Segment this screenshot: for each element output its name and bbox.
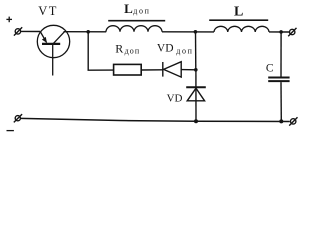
svg-text:доп: доп bbox=[125, 47, 141, 56]
wire: Ldop to L bbox=[162, 31, 214, 33]
diode VDdop (cathode left) bbox=[163, 62, 181, 77]
terminal T2 (top right output) bbox=[288, 28, 296, 36]
svg-text:C: C bbox=[266, 62, 274, 74]
junction node D bbox=[194, 68, 198, 72]
base bar bbox=[42, 43, 60, 45]
resistor Rdop bbox=[114, 64, 142, 75]
junction node C top bbox=[279, 30, 283, 34]
inductor L bbox=[209, 20, 269, 32]
svg-text:VD: VD bbox=[167, 92, 183, 104]
minus sign bbox=[7, 130, 14, 132]
wire: branch left segment bbox=[88, 69, 114, 71]
wire: node A down to Rdop branch bbox=[87, 32, 89, 70]
svg-text:R: R bbox=[115, 41, 123, 55]
junction node A bbox=[86, 30, 90, 34]
core bar Ldop bbox=[108, 20, 165, 22]
svg-text:VT: VT bbox=[38, 4, 58, 18]
wire: collector to Ldop bbox=[64, 31, 107, 33]
bottom rail wire bbox=[21, 118, 290, 121]
svg-text:L: L bbox=[234, 5, 243, 20]
wire: + terminal to transistor emitter bbox=[21, 30, 41, 32]
diode VD (cathode up) bbox=[186, 70, 206, 121]
junction node F bottom right bbox=[279, 119, 283, 123]
junction node E bottom bbox=[194, 119, 198, 123]
wire: VDdop to node D bbox=[181, 69, 196, 71]
plus sign bbox=[6, 17, 12, 23]
wire: node B down to node D bbox=[195, 32, 197, 70]
emitter line with arrow bbox=[40, 32, 46, 43]
inductor Ldop bbox=[106, 21, 165, 32]
collector line bbox=[53, 32, 64, 44]
wire: L to output terminal bbox=[269, 31, 289, 33]
terminal T1 (+ input) bbox=[14, 27, 22, 35]
transistor VT bbox=[37, 25, 69, 75]
terminal T4 (bottom right) bbox=[289, 117, 297, 125]
wire: resistor to VDdop bbox=[141, 69, 163, 71]
svg-text:доп: доп bbox=[133, 6, 150, 15]
wire: node C down to capacitor bbox=[280, 32, 282, 77]
junction node B bbox=[194, 30, 198, 34]
capacitor C bbox=[268, 78, 289, 82]
wire: capacitor to bottom rail bbox=[280, 82, 282, 121]
svg-text:L: L bbox=[124, 1, 133, 16]
core bar L bbox=[209, 19, 268, 21]
svg-text:VD: VD bbox=[157, 43, 174, 55]
base lead bbox=[52, 45, 54, 76]
svg-text:доп: доп bbox=[176, 47, 193, 56]
terminal T3 (bottom left) bbox=[14, 114, 22, 122]
